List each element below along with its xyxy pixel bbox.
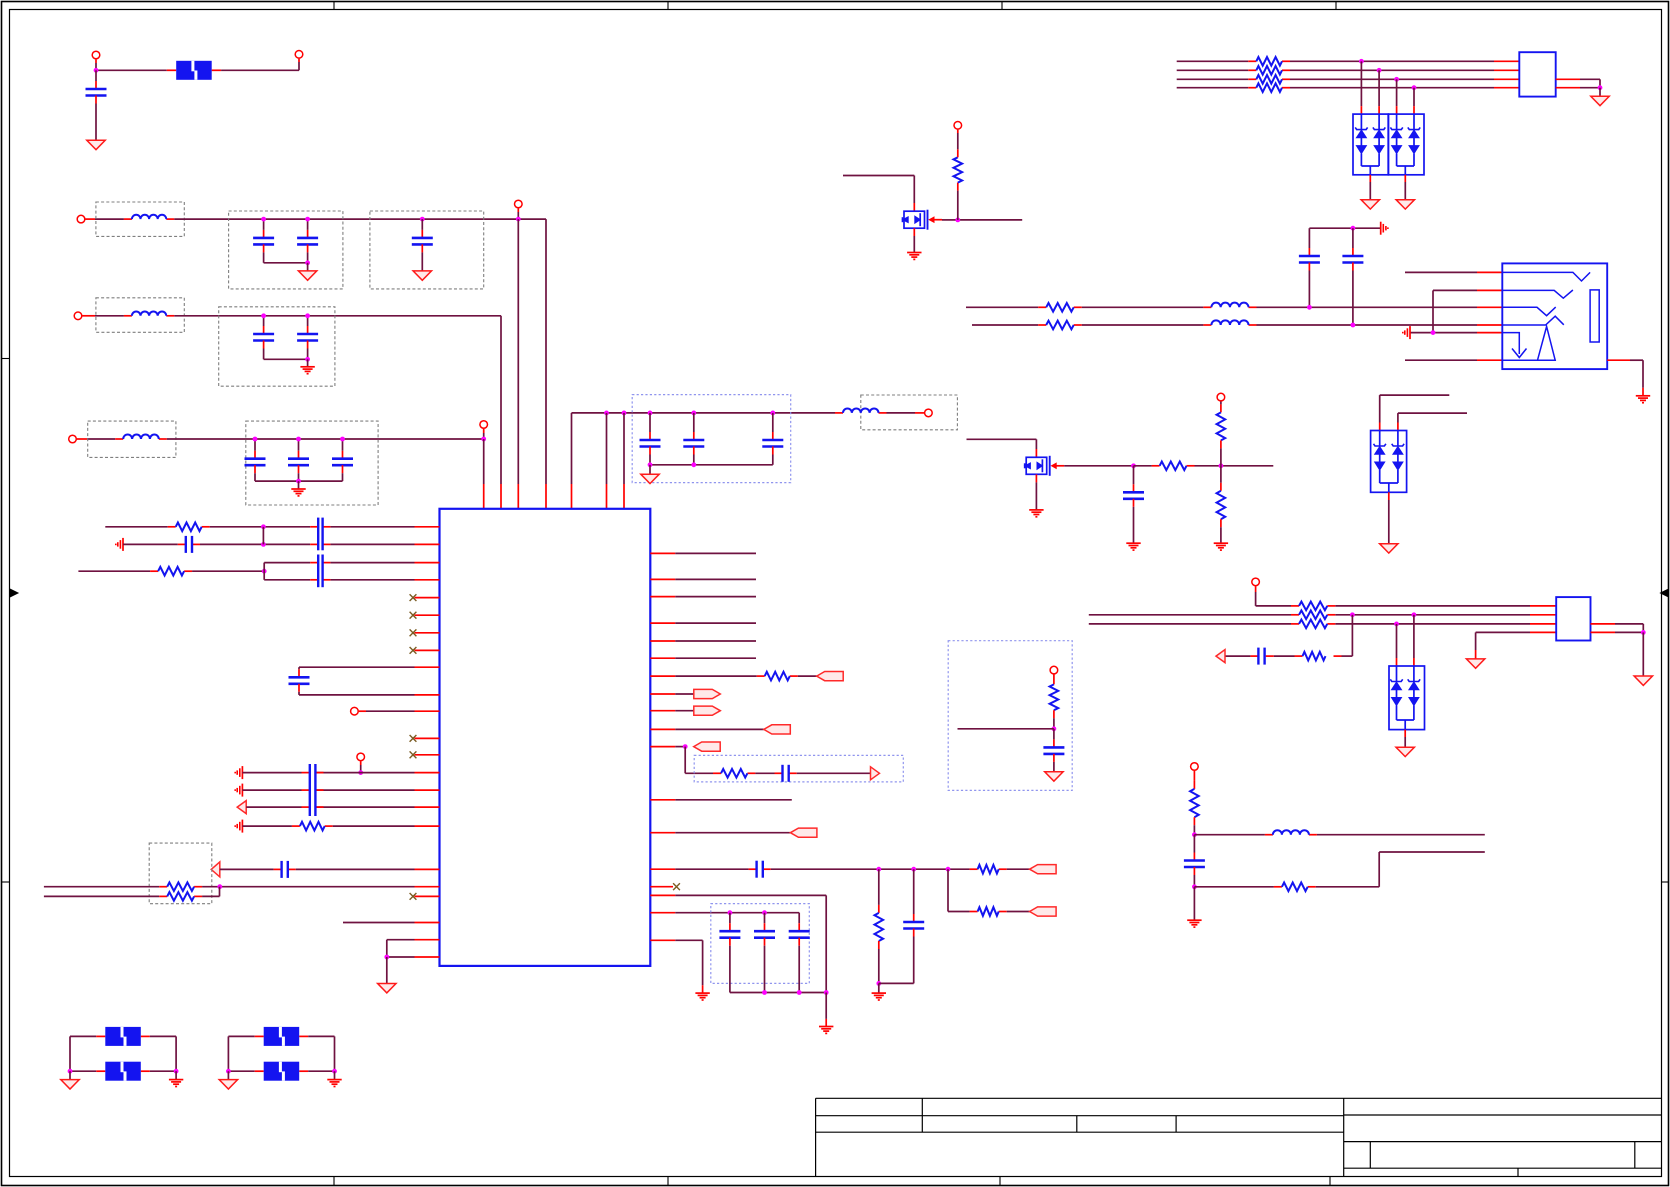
filter box FB3 (dashed) xyxy=(96,298,184,333)
ground xyxy=(649,465,651,474)
ferrite bead FB1 pin stubs xyxy=(167,69,176,71)
net tie NT1 xyxy=(105,1027,141,1046)
decoupling box 2 (dashed blue) xyxy=(711,904,810,984)
capacitor C21 xyxy=(280,861,282,878)
wire xyxy=(1413,88,1415,106)
resistor R17 xyxy=(765,672,790,681)
net tie NT3 xyxy=(264,1027,300,1046)
ferrite box (dashed) xyxy=(861,395,958,430)
wire line1 xyxy=(1177,60,1249,62)
wire row ctrl3 xyxy=(650,710,675,712)
cap group box (dashed) xyxy=(246,421,378,505)
wire xyxy=(1316,886,1380,888)
resistor R24 pin stubs xyxy=(1248,78,1256,80)
resistor R22 xyxy=(1256,57,1282,66)
ground xyxy=(1380,544,1398,553)
node junction xyxy=(217,884,222,889)
capacitor C2 xyxy=(263,219,265,230)
capacitor C26 xyxy=(764,913,766,924)
line-in box (dashed) xyxy=(149,843,212,904)
resistor R26 xyxy=(1303,652,1326,661)
capacitor C1 xyxy=(95,70,97,81)
terminal arrow xyxy=(237,801,246,814)
no-connect pins xyxy=(415,737,440,739)
node junction xyxy=(1052,726,1057,731)
no-connect pin xyxy=(415,895,440,897)
inductor L7 pin stubs xyxy=(1265,834,1273,836)
terminal P8 xyxy=(925,409,933,417)
wire xyxy=(1007,911,1030,913)
wire to IC pin T7 xyxy=(622,411,627,416)
cap group box (dashed) xyxy=(219,307,335,386)
wire xyxy=(1380,394,1450,396)
terminal P12 xyxy=(1191,763,1199,771)
node junctions xyxy=(648,462,653,467)
node junctions xyxy=(762,990,767,995)
wire to IC pin T1 xyxy=(483,439,485,484)
ground xyxy=(1361,200,1379,209)
resistor R22 pin stubs xyxy=(1248,60,1256,62)
wire xyxy=(958,728,1054,730)
node junction xyxy=(1377,68,1382,73)
terminal P1 xyxy=(92,51,100,59)
wire xyxy=(1194,886,1274,888)
wire row clk2 xyxy=(947,869,949,911)
wire xyxy=(202,886,220,888)
title block xyxy=(816,1097,1662,1099)
no-connect pin right xyxy=(650,886,673,888)
wire xyxy=(1404,175,1406,182)
wire row clk xyxy=(650,868,675,870)
wire xyxy=(1432,290,1434,332)
wire row1 spine xyxy=(174,218,546,220)
wire xyxy=(1369,175,1371,182)
terminal arrow xyxy=(211,862,220,877)
node junction xyxy=(1192,832,1197,837)
cap stubs red xyxy=(310,562,318,564)
wire xyxy=(1194,834,1265,836)
wire xyxy=(1388,492,1390,500)
wire jack pin1 xyxy=(1405,271,1477,273)
resistor R4 (pulldown) xyxy=(1220,466,1222,483)
flag terminal xyxy=(764,725,791,734)
wire xyxy=(255,480,343,482)
resistor R18 xyxy=(721,769,747,778)
wire power rail xyxy=(572,412,836,414)
resistor R11 xyxy=(1282,883,1308,892)
wire usb D- xyxy=(1089,614,1291,616)
capacitor C23 xyxy=(755,861,757,878)
wire xyxy=(1556,87,1580,89)
flag terminal xyxy=(694,706,721,715)
capacitor C16 xyxy=(1193,835,1195,853)
resistor R21 xyxy=(978,907,999,916)
terminal P4 xyxy=(515,200,523,208)
capacitor bars C18 (pair) xyxy=(317,518,319,551)
wire row SD3 xyxy=(78,570,150,572)
inductor L4 xyxy=(843,408,879,412)
resistor R6 pin stubs xyxy=(1038,324,1046,326)
terminal P7 xyxy=(480,421,488,429)
capacitor C22 pin stubs xyxy=(775,772,783,774)
wire row irq xyxy=(650,746,675,748)
cap stub red xyxy=(310,526,318,528)
terminal P14 xyxy=(357,753,365,761)
capacitor C4 xyxy=(420,217,425,222)
node junctions xyxy=(226,1069,231,1074)
resistor R21 pin stubs xyxy=(970,911,978,913)
chassis ground (left) xyxy=(241,820,243,833)
node junctions xyxy=(68,1069,73,1074)
net tie group 2 wires xyxy=(227,1036,229,1071)
resistor R15 pin stubs xyxy=(159,886,167,888)
resistor R9 pin stubs xyxy=(1291,623,1299,625)
wire xyxy=(1134,465,1152,467)
resistor R13 pin stubs xyxy=(150,570,158,572)
capacitor C11 xyxy=(691,411,696,416)
wire xyxy=(1225,655,1251,657)
IC pin stubs xyxy=(415,562,440,564)
resistor R16 xyxy=(167,892,194,901)
wire xyxy=(755,772,774,774)
wire xyxy=(333,825,415,827)
wire xyxy=(967,438,1037,440)
flag terminal xyxy=(694,689,721,698)
ground xyxy=(307,359,309,367)
node junction xyxy=(94,68,99,73)
terminal P2 xyxy=(295,51,303,59)
node junctions + tie xyxy=(261,524,266,529)
capacitor C17 xyxy=(185,536,187,553)
wire xyxy=(1274,655,1295,657)
resistor R25 xyxy=(1256,83,1282,92)
terminal P3 xyxy=(77,215,85,223)
resistor R8 pin stubs xyxy=(1291,614,1299,616)
wire gate Q2 xyxy=(1064,465,1133,467)
wire row codec3 xyxy=(246,806,301,808)
capacitor C24 xyxy=(913,869,915,914)
wire xyxy=(87,438,115,440)
wire row SD1 xyxy=(105,526,167,528)
terminal P10 xyxy=(1217,393,1225,401)
node junction xyxy=(1641,630,1646,635)
resistor R3 (pullup) xyxy=(1220,401,1222,404)
resistor R25 pin stubs xyxy=(1248,87,1256,89)
capacitor bars C20 (triple) xyxy=(309,764,311,816)
wire xyxy=(797,772,871,774)
resistor R20 (divider) xyxy=(878,869,880,905)
wire xyxy=(843,175,914,177)
wire gnd pins xyxy=(387,939,415,941)
wire row vdd2 xyxy=(650,894,675,896)
border center arrow right xyxy=(1661,589,1669,596)
wire audio left channel xyxy=(966,306,1038,308)
wire xyxy=(684,747,686,774)
terminal P13 xyxy=(351,707,359,715)
capacitor C15 xyxy=(1352,228,1354,248)
chassis ground (left) xyxy=(122,538,124,551)
wire to IC pin T2 xyxy=(500,316,502,484)
connector J1 audio jack xyxy=(1502,263,1607,369)
mic bias box (dashed blue) xyxy=(948,641,1072,791)
wire jack pin2 xyxy=(1433,289,1477,291)
node junction xyxy=(358,770,363,775)
node junctions xyxy=(876,867,881,872)
wire split xyxy=(263,563,265,580)
ground xyxy=(1642,632,1644,676)
wire row vdd xyxy=(650,912,675,914)
ground xyxy=(334,1071,336,1079)
TVS diode D2 xyxy=(1389,666,1425,730)
wire row gpio xyxy=(650,799,675,801)
resistor R2 xyxy=(1160,462,1187,471)
node junction xyxy=(1192,884,1197,889)
capacitor C23 pin stubs xyxy=(749,868,757,870)
transistor Q1 source to ground xyxy=(913,228,915,236)
ground xyxy=(175,1071,177,1079)
TVS diode D1 xyxy=(1371,431,1407,493)
wire xyxy=(1007,868,1030,870)
capacitor C22 xyxy=(781,765,783,782)
capacitor C13 xyxy=(1133,466,1135,485)
wire line-in A xyxy=(44,886,159,888)
wire row codec1 xyxy=(242,772,301,774)
node junction xyxy=(384,955,389,960)
terminal P6 xyxy=(69,435,77,443)
wire jack sleeve to ground xyxy=(1607,359,1630,361)
wire line2 xyxy=(1177,69,1249,71)
flag terminal xyxy=(817,672,844,681)
inductor L2 xyxy=(132,311,166,315)
resistor R14 xyxy=(300,822,325,831)
ground xyxy=(227,1071,229,1079)
wire row aux xyxy=(343,922,415,924)
wire line3 xyxy=(1177,78,1249,80)
bypass capacitor C29 xyxy=(299,666,415,668)
ground xyxy=(87,140,105,149)
resistor R5 xyxy=(1046,303,1074,312)
wire AC-couple rail xyxy=(1309,227,1380,229)
ground xyxy=(307,263,309,271)
wire gnd rail xyxy=(730,992,826,994)
node junction xyxy=(1219,463,1224,468)
wire xyxy=(1360,61,1362,106)
wire row codec4 xyxy=(242,825,292,827)
resistor R19 pin stubs xyxy=(970,868,978,870)
node junction xyxy=(481,437,486,442)
terminal P11 xyxy=(1252,578,1260,586)
node junction xyxy=(955,218,960,223)
chassis ground (left) xyxy=(241,784,243,797)
decoupling box (dashed blue) xyxy=(632,395,791,483)
capacitor C10 xyxy=(648,411,653,416)
node junction xyxy=(1394,77,1399,82)
ground xyxy=(298,481,300,489)
resistor R18 pin stubs xyxy=(713,772,721,774)
terminal P9 xyxy=(954,122,962,130)
wire usb vbus xyxy=(1256,605,1291,607)
inductor L1 xyxy=(132,215,166,219)
ground xyxy=(878,983,880,993)
cap box 2 (dashed) xyxy=(370,211,484,289)
resistor R27 xyxy=(1053,680,1055,684)
wire xyxy=(221,69,299,71)
capacitor C28 pin stubs xyxy=(1266,655,1274,657)
ground xyxy=(413,271,431,280)
ground xyxy=(825,993,827,1019)
wire usb D+ xyxy=(1089,623,1291,625)
resistor R17 pin stubs xyxy=(757,675,765,677)
resistor R5 pin stubs xyxy=(1038,306,1046,308)
wire usb id/gnd xyxy=(1476,631,1530,633)
inductor L3 xyxy=(123,435,159,439)
capacitor C27 xyxy=(798,913,800,924)
ground xyxy=(1126,542,1140,544)
capacitor C25 xyxy=(729,913,731,924)
capacitor C7 xyxy=(254,439,256,451)
wire xyxy=(95,218,124,220)
border center arrow left xyxy=(11,589,19,596)
node junctions xyxy=(261,217,266,222)
wire jack pin6 xyxy=(1405,359,1477,361)
resistor R23 pin stubs xyxy=(1248,69,1256,71)
node junction xyxy=(1598,85,1603,90)
wire xyxy=(264,358,308,360)
capacitor C14 xyxy=(1308,228,1310,248)
wire xyxy=(1378,70,1380,106)
wire line4 xyxy=(1177,87,1249,89)
resistor R23 xyxy=(1256,66,1282,75)
resistor R12 xyxy=(176,523,202,532)
node junction xyxy=(1431,330,1436,335)
chassis ground (left) xyxy=(241,766,243,779)
wire xyxy=(200,543,263,545)
ground xyxy=(1466,659,1484,668)
IC U1 xyxy=(440,509,651,966)
wire row gnd xyxy=(650,939,675,941)
inductor L5 pin stubs xyxy=(1203,306,1211,308)
ground xyxy=(69,1071,71,1079)
node junction xyxy=(296,479,301,484)
wire xyxy=(210,526,264,528)
capacitor bars C19 (pair) xyxy=(317,555,319,588)
capacitor C28 xyxy=(1257,648,1259,665)
node junctions xyxy=(1350,612,1355,617)
resistor R12 pin stubs xyxy=(168,526,176,528)
wire shield xyxy=(1591,623,1616,625)
inductor L7 xyxy=(1273,830,1309,835)
wire xyxy=(879,982,914,984)
wire row ctrl1 xyxy=(650,675,675,677)
filter box FB2 (dashed) xyxy=(96,202,184,236)
wire xyxy=(202,895,219,897)
resistor R8 xyxy=(1299,611,1327,620)
TVS array D4 xyxy=(1389,114,1425,175)
node junctions xyxy=(261,313,266,318)
resistor R13 xyxy=(158,567,184,576)
ground xyxy=(1599,88,1601,97)
resistor R6 xyxy=(1046,321,1074,330)
capacitor C12 xyxy=(770,411,775,416)
transistor Q2 xyxy=(1026,457,1047,474)
wire row int xyxy=(650,832,675,834)
IC pin stub xyxy=(415,543,440,545)
wire audio right channel xyxy=(972,324,1038,326)
wire jack pin5 xyxy=(1410,332,1477,334)
node junction xyxy=(1131,463,1136,468)
ground xyxy=(1029,509,1043,511)
resistor R9 xyxy=(1299,620,1327,629)
filter box FB4 (dashed) xyxy=(88,421,176,457)
node junction xyxy=(1359,59,1364,64)
no-connect pins xyxy=(415,597,440,599)
ferrite bead FB1 xyxy=(176,61,212,80)
wire xyxy=(95,63,97,70)
resistor R24 xyxy=(1256,75,1282,84)
resistor R19 xyxy=(978,865,999,874)
wire to IC pin T5 xyxy=(571,413,573,484)
wire xyxy=(192,570,264,572)
ground xyxy=(1396,747,1414,756)
wire xyxy=(95,315,124,317)
net tie group 1 wires xyxy=(69,1036,71,1071)
wire row3 spine xyxy=(167,438,484,440)
wire bus rows right xyxy=(650,552,675,554)
inductor L4 pin stubs xyxy=(835,412,843,414)
net tie NT2 xyxy=(105,1062,141,1081)
wire xyxy=(352,772,415,774)
wire xyxy=(1396,79,1398,106)
resistor R1 xyxy=(957,191,959,220)
transistor Q2 drain stub xyxy=(1035,449,1037,457)
wire xyxy=(771,868,970,870)
node junction xyxy=(876,981,881,986)
ground xyxy=(695,992,709,994)
chassis ground (right) xyxy=(1380,222,1382,235)
resistor R7 xyxy=(1299,602,1327,611)
resistor R2 pin stubs xyxy=(1152,465,1160,467)
flag terminal xyxy=(790,828,817,837)
wire xyxy=(650,464,773,466)
wire xyxy=(1396,624,1398,658)
inductor L6 pin stubs xyxy=(1203,324,1211,326)
reset box (dashed blue) xyxy=(694,755,903,782)
ground xyxy=(907,252,921,254)
cap stub red xyxy=(310,543,318,545)
node junction xyxy=(683,744,688,749)
wire shield2 xyxy=(1591,631,1616,633)
node junction xyxy=(1412,85,1417,90)
wire xyxy=(1398,412,1467,414)
capacitor C6 xyxy=(307,316,309,326)
ground xyxy=(1636,395,1650,397)
terminal arrow right xyxy=(871,767,880,780)
flag terminal xyxy=(1030,907,1057,916)
wire sense branch xyxy=(1351,615,1353,656)
wire xyxy=(1404,730,1406,737)
ground xyxy=(1193,887,1195,920)
resistor R7 pin stubs xyxy=(1291,605,1299,607)
resistor R26 pin stubs xyxy=(1334,655,1342,657)
ground xyxy=(1045,772,1063,781)
border zone ticks xyxy=(333,2,335,10)
IC pin stub xyxy=(415,526,440,528)
chassis ground (left) xyxy=(1409,326,1411,339)
resistor R11 pin stubs xyxy=(1274,886,1282,888)
capacitor C9 xyxy=(342,439,344,451)
ground xyxy=(1214,542,1228,544)
inductor L6 xyxy=(1211,320,1248,325)
